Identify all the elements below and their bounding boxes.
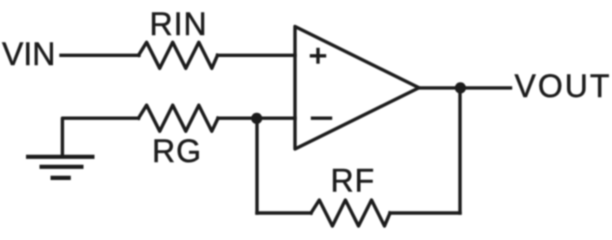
svg-text:RF: RF [331, 163, 376, 199]
wire op-amp output to VOUT [419, 86, 511, 89]
svg-text:RIN: RIN [150, 6, 208, 42]
node VIN label [2, 36, 55, 72]
wire feedback bottom left segment [257, 211, 311, 214]
wire feedback bottom right segment [390, 211, 460, 214]
svg-text:VOUT: VOUT [515, 68, 612, 104]
wire VIN to RIN [61, 54, 139, 57]
wire RG to op-amp inverting input [218, 116, 295, 119]
resistor RF [311, 200, 390, 226]
label RIN [150, 6, 208, 42]
label RF [331, 163, 376, 199]
wire RIN to op-amp noninverting input [218, 54, 296, 57]
resistor RG [139, 105, 219, 131]
wire ground to RG [62, 118, 138, 156]
node inverting input junction [251, 113, 262, 124]
node VOUT label [515, 68, 612, 104]
resistor RIN [139, 42, 218, 68]
op-amp - input marker [313, 116, 331, 119]
svg-text:RG: RG [152, 133, 202, 169]
label RG [152, 133, 202, 169]
wire feedback up to inverting node [255, 118, 258, 213]
svg-text:VIN: VIN [2, 36, 55, 72]
op-amp U1 [295, 27, 419, 150]
ground [26, 157, 95, 178]
op-amp + input marker [312, 50, 325, 63]
node output junction [455, 82, 466, 93]
wire output down to feedback [458, 88, 461, 213]
